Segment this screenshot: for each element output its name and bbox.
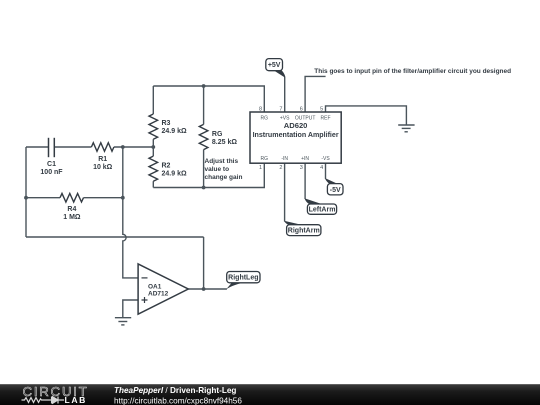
resistor R1 [91, 143, 114, 152]
wire: R3 bottom to junction to R2 top [152, 139, 154, 156]
junction dots [121, 145, 125, 149]
svg-text:-VS: -VS [321, 156, 330, 162]
wire: C1 to R1 segment [54, 146, 91, 148]
svg-text:1 MΩ: 1 MΩ [63, 214, 81, 221]
svg-text:+VS: +VS [280, 116, 290, 122]
wire: vertical R1 junction down to R4 junction [122, 147, 124, 198]
svg-text:-5V: -5V [330, 187, 341, 194]
svg-text:+5V: +5V [268, 62, 281, 69]
wire: feedback bottom horizontal [26, 236, 204, 238]
svg-text:4: 4 [320, 165, 323, 171]
svg-text:RG: RG [261, 116, 269, 122]
svg-text:RightLeg: RightLeg [228, 275, 258, 282]
svg-text:LAB: LAB [65, 395, 87, 405]
ground at op-amp plus input [115, 318, 131, 325]
wire: R4 row right [84, 197, 123, 199]
svg-text:R1: R1 [98, 156, 107, 163]
CircuitLab logo [22, 384, 89, 405]
svg-text:C1: C1 [47, 161, 56, 168]
svg-text:AD712: AD712 [148, 290, 169, 297]
svg-text:This goes to input pin of the: This goes to input pin of the filter/amp… [314, 68, 511, 75]
svg-text:+IN: +IN [301, 156, 309, 162]
svg-text:LeftArm: LeftArm [309, 207, 336, 214]
svg-text:R4: R4 [67, 206, 76, 213]
wire: C1 row left segment [26, 146, 49, 148]
svg-text:OUTPUT: OUTPUT [295, 116, 316, 122]
svg-text:7: 7 [279, 106, 282, 112]
resistor R4 [60, 193, 84, 202]
wire: RG branch top [203, 86, 205, 124]
wire: R1 right to R3/R2 junction [114, 146, 153, 148]
svg-text:-IN: -IN [281, 156, 288, 162]
wire: pin 7 +VS up to +5V flag [284, 77, 286, 112]
wire: pin 2 -IN down to RightArm [284, 163, 286, 221]
svg-text:3: 3 [300, 165, 303, 171]
svg-text:Adjust this: Adjust this [205, 158, 239, 165]
net flag -5V [325, 178, 339, 184]
op-amp OA1 AD712 [138, 264, 188, 314]
wire: bottom bus to pin 1 [153, 163, 264, 187]
resistor R3 [149, 114, 158, 139]
net flag LeftArm [304, 198, 323, 204]
svg-text:1: 1 [259, 165, 262, 171]
wire: op-amp output to RightLeg [188, 288, 227, 290]
wire: left rail vertical [25, 147, 27, 237]
net flag RightArm [284, 221, 304, 226]
svg-text:OA1: OA1 [148, 283, 162, 290]
wire: pin 6 OUTPUT up and right stub [305, 76, 326, 112]
wire: vertical with hop down to op-amp minus input [123, 198, 138, 278]
svg-text:2: 2 [279, 165, 282, 171]
svg-text:24.9 kΩ: 24.9 kΩ [162, 171, 187, 178]
net flag RightLeg [226, 282, 249, 290]
svg-text:100 nF: 100 nF [40, 169, 63, 176]
svg-text:TheaPepperl / Driven-Right-Leg: TheaPepperl / Driven-Right-Leg [114, 386, 236, 395]
wire: pin 4 -VS down to -5V flag [325, 163, 327, 179]
svg-text:http://circuitlab.com/cxpc8nvf: http://circuitlab.com/cxpc8nvf94h56 [114, 396, 242, 405]
wire: top bus to pin 8 [153, 86, 264, 112]
wire: R2 bottom [152, 181, 154, 187]
resistor R2 [149, 156, 158, 181]
wire: feedback vertical to output junction [203, 237, 205, 289]
svg-text:6: 6 [300, 106, 303, 112]
wire: R4 row left [26, 197, 60, 199]
svg-text:change gain: change gain [205, 174, 243, 181]
svg-text:value to: value to [205, 166, 230, 173]
svg-text:REF: REF [321, 116, 331, 122]
wire: RG branch bottom [203, 150, 205, 188]
IC U1 AD620 Instrumentation Amplifier [250, 112, 341, 163]
wire: R3 branch top [152, 86, 154, 114]
resistor RG [199, 124, 208, 149]
svg-text:RG: RG [261, 156, 269, 162]
svg-text:5: 5 [320, 106, 323, 112]
svg-text:RightArm: RightArm [288, 228, 320, 235]
svg-text:R2: R2 [162, 163, 171, 170]
svg-text:Instrumentation Amplifier: Instrumentation Amplifier [253, 131, 339, 139]
wire: pin 5 REF to ground [326, 106, 407, 125]
capacitor C1 [49, 138, 55, 157]
svg-text:24.9 kΩ: 24.9 kΩ [162, 128, 187, 135]
ground at REF pin [398, 125, 414, 132]
svg-text:8.25 kΩ: 8.25 kΩ [212, 139, 237, 146]
svg-text:8: 8 [259, 106, 262, 112]
svg-text:10 kΩ: 10 kΩ [93, 164, 113, 171]
svg-text:R3: R3 [162, 120, 171, 127]
wire: pin 3 +IN down to LeftArm [304, 163, 306, 199]
wire: op-amp plus input [123, 300, 138, 318]
svg-text:AD620: AD620 [284, 121, 308, 130]
net flag +5V [274, 70, 286, 77]
svg-text:RG: RG [212, 131, 223, 138]
